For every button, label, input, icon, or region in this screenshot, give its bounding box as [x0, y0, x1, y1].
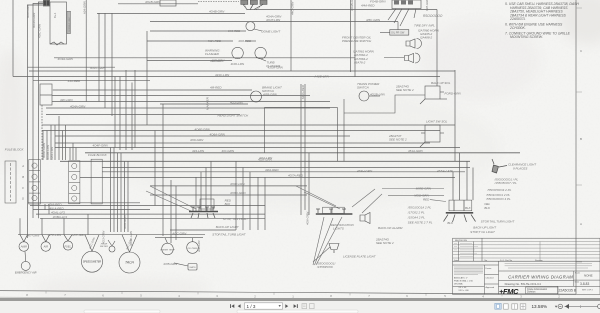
svg-text:NONE: NONE [584, 274, 593, 278]
svg-text:MDA-RED: MDA-RED [301, 84, 305, 99]
svg-text:SEE NOTE 2: SEE NOTE 2 [376, 241, 394, 245]
svg-text:CARRIER WIRING DIAGRAM: CARRIER WIRING DIAGRAM [508, 275, 573, 280]
svg-text:BLK: BLK [447, 221, 454, 225]
svg-text:DOME LIGHT: DOME LIGHT [262, 30, 282, 34]
svg-text:FORD-GRN: FORD-GRN [445, 92, 462, 96]
svg-text:B: B [580, 137, 582, 141]
svg-text:4I3O-LRN: 4I3O-LRN [231, 62, 245, 66]
svg-text:SEE NOTE 2: SEE NOTE 2 [389, 138, 407, 142]
svg-text:646-RED: 646-RED [228, 29, 241, 33]
svg-text:BLK: BLK [484, 206, 491, 210]
svg-text:REVISIONS: REVISIONS [455, 240, 467, 242]
svg-text:METER: METER [100, 246, 108, 248]
svg-text:C: C [22, 186, 24, 190]
svg-text:STOP,T NL LIGHT: STOP,T NL LIGHT [470, 230, 496, 234]
svg-text:D: D [22, 196, 24, 200]
svg-text:Scale: Scale [575, 272, 581, 274]
svg-text:LICENSE PLATE LIGHT: LICENSE PLATE LIGHT [343, 255, 377, 259]
svg-text:FU2E BLOCK: FU2E BLOCK [88, 153, 108, 157]
svg-text:4SSA-LATE: 4SSA-LATE [437, 169, 454, 173]
svg-text:SEE NOTE 2 7 PL: SEE NOTE 2 7 PL [408, 220, 433, 224]
svg-text:4O6-RED: 4O6-RED [238, 39, 252, 43]
svg-text:BACK-UP LIGHT: BACK-UP LIGHT [473, 225, 497, 229]
svg-text:A: A [21, 164, 24, 168]
svg-text:/15OA4 2 PL: /15OA4 2 PL [407, 216, 426, 220]
svg-text:EMERGENCY AIR: EMERGENCY AIR [15, 270, 37, 274]
svg-text:4O9F-LRN: 4O9F-LRN [230, 182, 245, 186]
svg-text:4O4F-GRN: 4O4F-GRN [93, 143, 109, 147]
svg-text:3-8-83: 3-8-83 [580, 282, 589, 286]
svg-text:4O8D-GRN: 4O8D-GRN [230, 191, 246, 195]
svg-text:22A5037L: 22A5037L [509, 17, 526, 21]
svg-text:RED: RED [423, 198, 430, 202]
svg-text:B+ A: B+ A [54, 12, 57, 18]
svg-text:431C-LRN: 431C-LRN [215, 73, 230, 77]
svg-text:LIGHT SW SOL: LIGHT SW SOL [426, 120, 448, 124]
svg-text:STOP,TAIL,TURB LIGHT: STOP,TAIL,TURB LIGHT [212, 232, 247, 236]
svg-text:AMM: AMM [20, 245, 28, 249]
svg-text:SPEEDOMETER: SPEEDOMETER [83, 261, 102, 264]
svg-text:WATER TEMP: WATER TEMP [160, 248, 175, 251]
svg-text:.XX ± .06: .XX ± .06 [458, 287, 467, 289]
svg-text:SEE NOTE 2: SEE NOTE 2 [396, 88, 414, 92]
svg-text:A: A [580, 222, 582, 226]
svg-text:TACH: TACH [125, 261, 135, 265]
svg-text:BALK UP SOL: BALK UP SOL [431, 81, 451, 85]
svg-text:SHT 1 OF 3: SHT 1 OF 3 [582, 290, 594, 292]
svg-text:4O4B-GRN: 4O4B-GRN [350, 0, 354, 11]
svg-text:Approved: Approved [486, 286, 495, 289]
svg-text:43IA-LRN: 43IA-LRN [50, 146, 54, 160]
svg-text:4O6E-GRN: 4O6E-GRN [195, 128, 211, 132]
svg-text:434-LRN: 434-LRN [192, 149, 205, 153]
svg-text:/55O1OO1A 2 PL: /55O1OO1A 2 PL [407, 206, 432, 210]
svg-text:4I4A-RED: 4I4A-RED [361, 4, 375, 8]
svg-text:MIRE-GRN: MIRE-GRN [416, 187, 432, 191]
svg-text:FO4B-GRN: FO4B-GRN [370, 0, 386, 4]
svg-text:4I7-GRN: 4I7-GRN [28, 233, 41, 237]
svg-text:OIL PRES: OIL PRES [187, 248, 198, 250]
svg-text:4O3A-GRN: 4O3A-GRN [58, 57, 74, 61]
svg-text:4TAH-GRN: 4TAH-GRN [357, 169, 373, 173]
svg-text:13.58%: 13.58% [532, 304, 548, 309]
svg-text:44O-GRN: 44O-GRN [291, 1, 295, 15]
svg-text:438-GRN: 438-GRN [210, 59, 224, 63]
svg-text:FULE BLOCK: FULE BLOCK [5, 148, 25, 152]
svg-text:STOP,TAIL,TURN LIGHT: STOP,TAIL,TURN LIGHT [481, 219, 516, 223]
svg-text:ANGULAR ± 1°: ANGULAR ± 1° [454, 277, 468, 280]
svg-text:ACC-GRN: ACC-GRN [171, 232, 187, 236]
svg-text:Division: Division [527, 291, 536, 294]
svg-text:WATS: WATS [189, 266, 196, 269]
svg-text:4O2B-LRN: 4O2B-LRN [370, 93, 386, 97]
svg-text:2CH300K.: 2CH300K. [509, 26, 526, 30]
svg-text:4O1B-GRN: 4O1B-GRN [145, 0, 161, 4]
svg-text:ACC-GRN: ACC-GRN [71, 233, 87, 237]
svg-text:PRESSURE SWITCH: PRESSURE SWITCH [342, 39, 372, 43]
svg-text:4I7B-GRN: 4I7B-GRN [163, 262, 178, 266]
svg-text:HEAD LIGHT SWITCH: HEAD LIGHT SWITCH [218, 113, 250, 117]
svg-text:Checked: Checked [486, 278, 494, 280]
svg-text:4I5C-GRN: 4I5C-GRN [366, 18, 381, 22]
svg-text:BACK-UP LIGHT: BACK-UP LIGHT [216, 225, 240, 229]
svg-text:4O6-GRN: 4O6-GRN [190, 138, 204, 142]
svg-text:4OAL-LF3: 4OAL-LF3 [51, 211, 65, 215]
svg-text:4I3A-RED: 4I3A-RED [208, 39, 222, 43]
svg-text:AIR: AIR [43, 245, 48, 249]
svg-text:43IA-RED: 43IA-RED [265, 168, 279, 172]
svg-text:4O4A-GRN: 4O4A-GRN [70, 104, 86, 108]
svg-text:DECIMAL: DECIMAL [454, 283, 464, 286]
svg-text:MARKER: MARKER [206, 96, 210, 110]
svg-text:/55OO5OO4 2 PL: /55OO5OO4 2 PL [486, 188, 511, 192]
svg-text:BLK: BLK [465, 206, 472, 210]
svg-text:FUEL: FUEL [64, 245, 71, 249]
svg-text:#34-GRN: #34-GRN [83, 0, 87, 14]
svg-text:4O6-GRN: 4O6-GRN [306, 211, 310, 225]
svg-text:BACK-OF ALARM: BACK-OF ALARM [378, 226, 403, 230]
svg-text:A42E-LRN: A42E-LRN [313, 75, 329, 79]
svg-text:SWITCH: SWITCH [357, 86, 370, 90]
svg-text:43OA-GRN: 43OA-GRN [268, 66, 284, 70]
svg-text:LIGHTS: LIGHTS [333, 226, 344, 230]
svg-text:4I5B-GRN: 4I5B-GRN [263, 93, 278, 97]
svg-text:FRACTIONAL ± 1/16: FRACTIONAL ± 1/16 [454, 280, 474, 283]
svg-text:FUSIBLE LINK: FUSIBLE LINK [69, 17, 71, 32]
svg-text:4O4B-GRN: 4O4B-GRN [209, 10, 225, 14]
svg-text:/155O5OO7 / PL: /155O5OO7 / PL [494, 181, 518, 185]
svg-text:4O6A-GRN: 4O6A-GRN [210, 133, 226, 137]
svg-text:FLASHER: FLASHER [205, 52, 220, 56]
svg-text:MOUNTING SCREW.: MOUNTING SCREW. [510, 35, 543, 39]
svg-text:22A5O35 B: 22A5O35 B [559, 289, 577, 293]
svg-text:Revision: Revision [535, 260, 543, 262]
svg-text:4O4T-LRN: 4O4T-LRN [266, 18, 281, 22]
svg-text:43C-LRN: 43C-LRN [60, 98, 73, 102]
svg-text:I2A488-2: I2A488-2 [420, 36, 433, 40]
svg-text:9 PLACES: 9 PLACES [513, 166, 527, 170]
svg-text:4O9-GRN: 4O9-GRN [26, 4, 30, 18]
svg-text:STOP, TAIL LIGHT: STOP, TAIL LIGHT [223, 217, 249, 221]
svg-text:43IC-GRN: 43IC-GRN [37, 23, 41, 38]
svg-text:B: B [22, 175, 24, 179]
svg-text:4O1C-GRN: 4O1C-GRN [90, 66, 106, 70]
svg-text:RSOOOOOO: RSOOOOOO [423, 14, 443, 18]
svg-text:4O7A-RED: 4O7A-RED [288, 174, 304, 178]
svg-text:44A-RED: 44A-RED [68, 79, 82, 83]
svg-text:4I7C-LRN: 4I7C-LRN [48, 233, 62, 237]
svg-text:BLK: BLK [225, 202, 232, 206]
svg-text:#28-GRN: #28-GRN [425, 0, 429, 11]
svg-text:4OB-GRN: 4OB-GRN [123, 214, 127, 229]
svg-text:4I3B-LRN: 4I3B-LRN [197, 240, 201, 252]
svg-text:4O3-LRN: 4O3-LRN [230, 100, 244, 104]
svg-text:Drawing No. 5W-TE-OO1-C4: Drawing No. 5W-TE-OO1-C4 [505, 282, 542, 286]
svg-text:/17O52 2 PL: /17O52 2 PL [407, 211, 425, 215]
svg-text:4IO-GRN: 4IO-GRN [222, 149, 235, 153]
svg-text:4O3A-GRN: 4O3A-GRN [32, 12, 36, 28]
svg-text:/55OO3OOO 4 PL: /55OO3OOO 4 PL [485, 197, 511, 201]
svg-text:4OBA-LF3: 4OBA-LF3 [53, 215, 68, 219]
svg-text:/155835/O6: /155835/O6 [316, 265, 333, 269]
svg-text:/I6A76-2: /I6A76-2 [353, 60, 366, 64]
svg-text:4I2A-GRN: 4I2A-GRN [258, 157, 273, 161]
svg-text:TIRE DFY INFL: TIRE DFY INFL [414, 23, 435, 27]
svg-text:Drawn: Drawn [486, 268, 492, 270]
svg-text:4O3-GRN: 4O3-GRN [102, 230, 106, 244]
svg-text:1 / 3: 1 / 3 [247, 304, 256, 309]
svg-text:D. O. Part No: D. O. Part No [500, 259, 513, 262]
svg-text:OIL PR SW: OIL PR SW [391, 31, 405, 35]
svg-text:.XXX ± .030: .XXX ± .030 [458, 290, 470, 292]
svg-text:451A-GRN: 451A-GRN [408, 149, 424, 153]
svg-text:4I8-RED: 4I8-RED [210, 85, 222, 89]
